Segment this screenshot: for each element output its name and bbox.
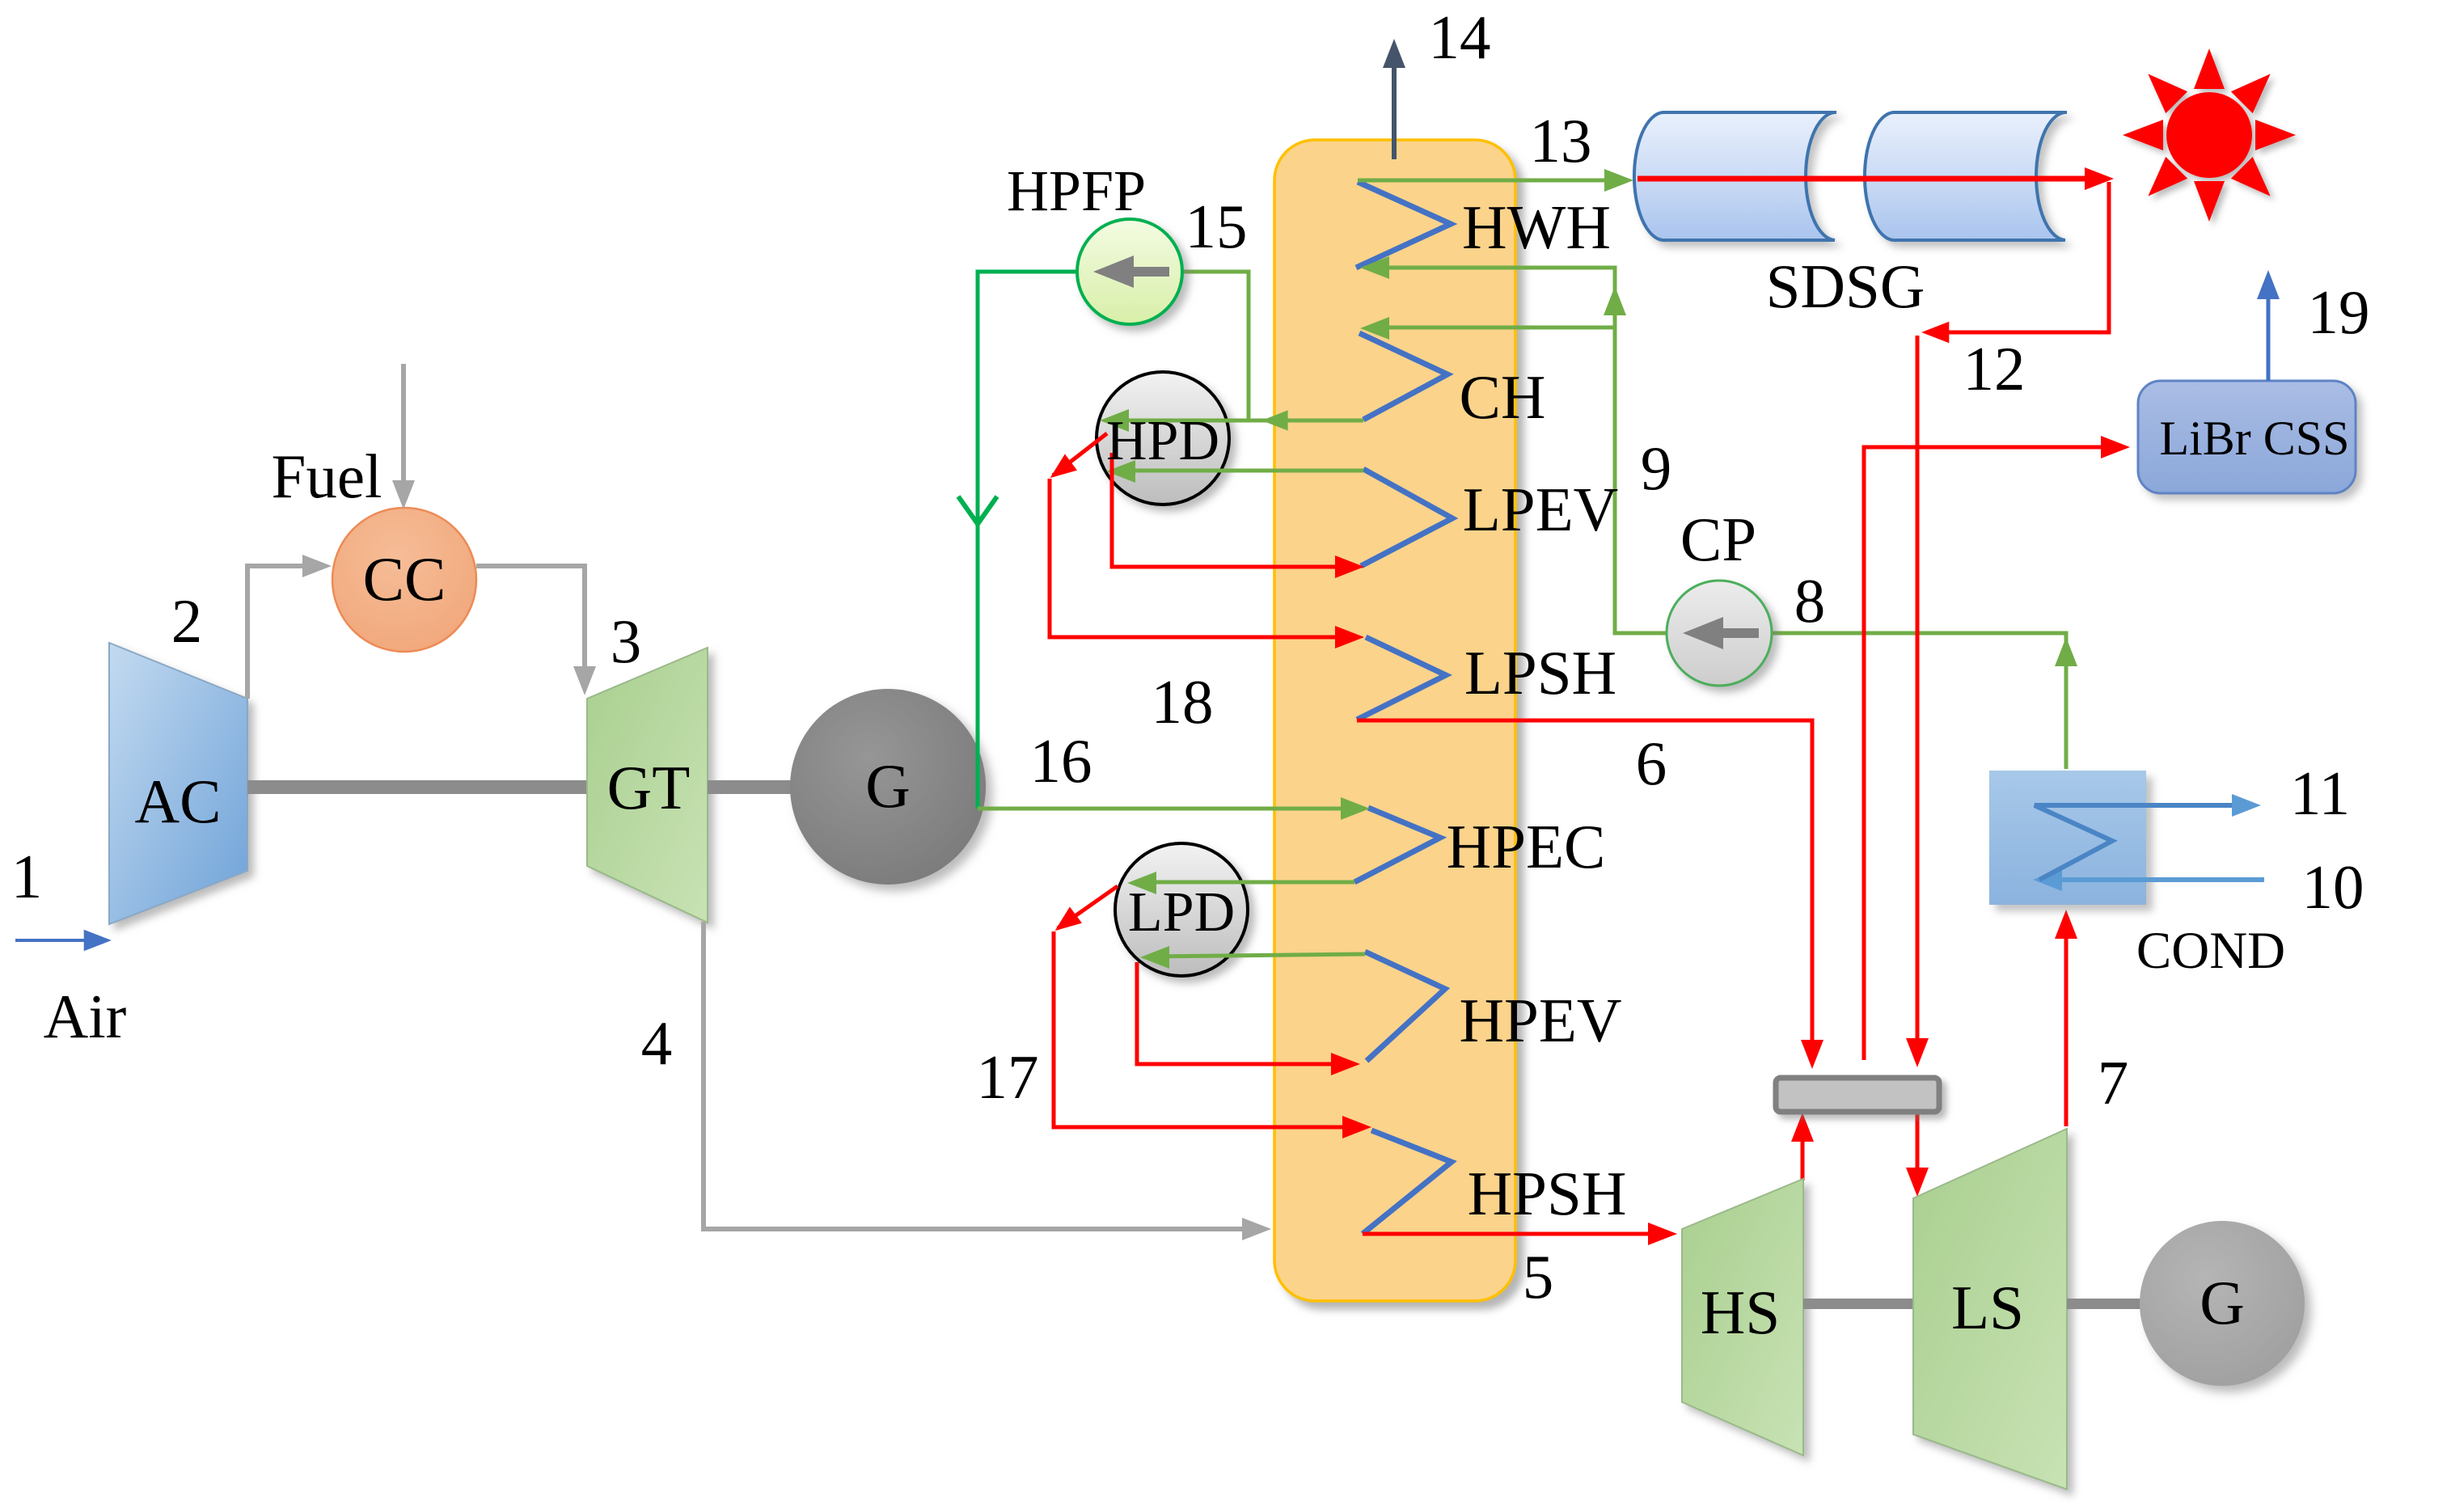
svg-text:18: 18: [1152, 667, 1214, 737]
svg-text:CP: CP: [1680, 505, 1756, 574]
svg-text:16: 16: [1030, 726, 1092, 796]
svg-text:COND: COND: [2136, 922, 2285, 980]
CH outlet wire to HPD: [1100, 409, 1363, 432]
coil HPEV: [1365, 952, 1445, 1061]
sun: [2123, 49, 2296, 222]
stream 9 wire (CP to HWH/CH returns): [1360, 256, 1667, 633]
svg-text:19: 19: [2308, 277, 2370, 347]
svg-text:HPEV: HPEV: [1459, 986, 1621, 1055]
stream 8 wire (COND to CP): [1772, 633, 2077, 769]
coil HPSH: [1363, 1130, 1452, 1234]
fuel feed arrow: [392, 364, 415, 509]
coil HPEC: [1354, 808, 1440, 882]
stream 5 wire (HPSH to HS): [1363, 1223, 1677, 1245]
LPEV outlet wire to HPD: [1106, 460, 1363, 483]
stream 6 wire (LPSH to mixer): [1357, 720, 1823, 1069]
pump HPFP: [1077, 219, 1182, 324]
stream 19 wire (LiBr chilled output): [2257, 270, 2280, 381]
stream 1 air inlet arrow: [15, 930, 112, 952]
svg-text:4: 4: [641, 1008, 673, 1078]
HPD downcomer wire to LPEV: [1112, 453, 1364, 578]
condenser coil: [2035, 805, 2237, 880]
svg-text:GT: GT: [607, 753, 691, 822]
coil LPSH: [1357, 637, 1446, 720]
HPFP suction wire: [1182, 272, 1249, 420]
svg-text:1: 1: [11, 842, 43, 911]
steam wire to LiBr CSS: [1864, 436, 2130, 1060]
stream 10 cooling water in: [2033, 868, 2264, 891]
HPEV outlet wire to LPD: [1140, 946, 1365, 969]
solar trough 2: [1865, 112, 2067, 240]
svg-text:CH: CH: [1460, 362, 1546, 432]
svg-text:G: G: [865, 751, 911, 821]
stream 16 wire (to HPEC): [978, 797, 1370, 820]
LS inlet wire from mixer: [1906, 1113, 1929, 1197]
compressor AC: [109, 643, 247, 924]
svg-text:HS: HS: [1701, 1278, 1780, 1347]
svg-text:17: 17: [977, 1042, 1039, 1112]
stream 11 cooling water out: [2232, 794, 2261, 817]
HPEC outlet wire to LPD: [1127, 872, 1354, 894]
svg-text:6: 6: [1636, 729, 1667, 798]
steam turbine HS: [1682, 1179, 1803, 1455]
condenser COND: [1989, 771, 2146, 905]
svg-text:10: 10: [2302, 852, 2364, 922]
svg-text:HWH: HWH: [1462, 192, 1611, 262]
HS exhaust wire to mixer: [1791, 1113, 1814, 1180]
shaft GT-G1: [708, 780, 801, 794]
svg-text:9: 9: [1641, 433, 1672, 503]
svg-text:SDSG: SDSG: [1766, 251, 1925, 321]
svg-text:HPEC: HPEC: [1447, 812, 1606, 881]
stream 13 wire (HWH to SDSG): [1358, 169, 1633, 192]
svg-text:LPSH: LPSH: [1464, 638, 1616, 707]
svg-text:AC: AC: [135, 767, 222, 836]
svg-text:LPEV: LPEV: [1463, 475, 1619, 544]
shaft LS-G2: [2067, 1299, 2144, 1309]
svg-text:Fuel: Fuel: [272, 441, 382, 511]
svg-text:8: 8: [1794, 566, 1826, 636]
svg-text:LPD: LPD: [1128, 881, 1235, 944]
stream 7 wire (LS to COND): [2055, 910, 2077, 1126]
svg-text:HPFP: HPFP: [1007, 158, 1146, 223]
generator G2: [2140, 1221, 2305, 1386]
svg-text:2: 2: [171, 586, 203, 656]
svg-text:Air: Air: [44, 982, 127, 1051]
coil CH: [1359, 333, 1447, 420]
stream 2 wire (AC to CC): [247, 555, 332, 699]
LiBr CSS box: [2138, 381, 2356, 493]
svg-text:G: G: [2200, 1268, 2245, 1337]
generator G1: [790, 689, 986, 885]
svg-text:12: 12: [1963, 334, 2026, 403]
stream 17 wire (LPD steam to HPSH): [1049, 886, 1371, 1138]
svg-text:5: 5: [1523, 1242, 1554, 1311]
stream 4 wire (GT exhaust to HRSG): [704, 922, 1271, 1240]
svg-text:CC: CC: [363, 544, 446, 614]
shaft AC-GT: [247, 780, 587, 794]
svg-text:LS: LS: [1951, 1273, 2024, 1342]
svg-text:14: 14: [1429, 2, 1491, 72]
steam turbine LS: [1913, 1129, 2067, 1489]
svg-text:LiBr CSS: LiBr CSS: [2159, 412, 2349, 465]
svg-text:11: 11: [2290, 758, 2350, 828]
pump CP: [1667, 581, 1772, 686]
drum HPD: [1097, 372, 1229, 505]
stream 3 wire (CC to GT): [476, 566, 596, 695]
shaft HS-LS: [1803, 1299, 1913, 1309]
stream 14 stack arrow: [1383, 39, 1405, 159]
svg-text:HPSH: HPSH: [1468, 1159, 1627, 1228]
coil LPEV: [1361, 469, 1452, 566]
stream 12 wire (SDSG outlet loop to mixer): [1638, 167, 2114, 1067]
svg-text:7: 7: [2098, 1048, 2129, 1117]
stream 18 wire (HPD steam to LPSH): [1044, 433, 1364, 648]
combustion chamber CC: [332, 508, 476, 652]
coil HWH: [1356, 182, 1451, 268]
solar trough 1: [1634, 112, 1836, 240]
gas turbine GT: [587, 648, 708, 923]
svg-text:HPD: HPD: [1106, 410, 1219, 472]
mixer header: [1776, 1078, 1939, 1112]
svg-text:15: 15: [1185, 192, 1248, 261]
HRSG flue-gas column: [1274, 140, 1515, 1301]
svg-text:3: 3: [611, 606, 642, 676]
drum LPD: [1115, 843, 1248, 976]
stream 15 wire (HPFP discharge, emerald): [958, 272, 1077, 809]
svg-text:13: 13: [1530, 106, 1592, 175]
LPD downcomer wire to HPEV: [1137, 962, 1360, 1075]
